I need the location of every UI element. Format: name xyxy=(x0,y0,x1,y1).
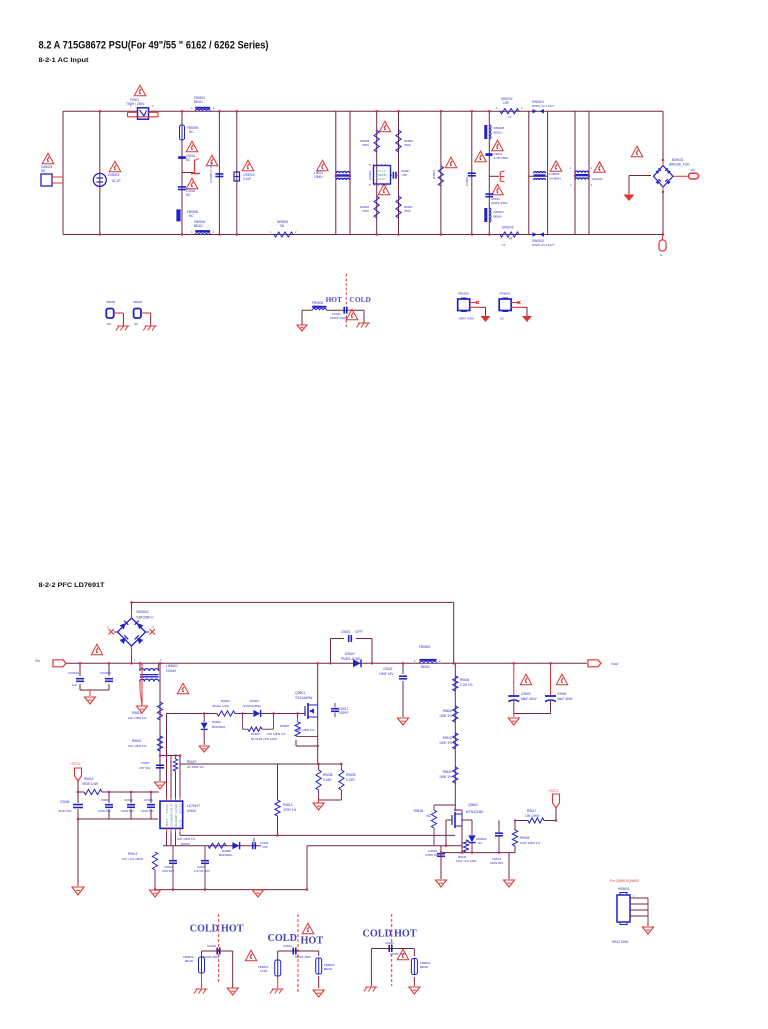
spark gap xyxy=(182,159,200,175)
svg-text:L9(2)60: L9(2)60 xyxy=(592,177,603,181)
svg-text:U9601: U9601 xyxy=(187,809,197,813)
capacitor C9007 xyxy=(393,169,410,179)
svg-text:CB901: CB901 xyxy=(106,300,116,304)
svg-text:C9602: C9602 xyxy=(383,667,393,671)
svg-text:+VCC2: +VCC2 xyxy=(70,762,81,766)
svg-text:0.15R: 0.15R xyxy=(323,778,332,782)
resistor R9612 xyxy=(122,852,158,890)
svg-text:COLD: COLD xyxy=(190,924,219,935)
bead FB9006 mid xyxy=(313,307,327,310)
svg-text:Vin: Vin xyxy=(35,659,40,663)
svg-text:R9613: R9613 xyxy=(283,803,293,807)
svg-text:1uF: 1uF xyxy=(72,683,77,687)
svg-text:121R: 121R xyxy=(260,969,268,973)
ground 142 xyxy=(137,706,148,713)
svg-text:NC: NC xyxy=(186,158,191,162)
resistor SR9002 xyxy=(496,97,523,119)
capacitor C9612 xyxy=(162,846,177,890)
warning triangle g2 xyxy=(302,923,314,934)
connector VCC2 left xyxy=(70,762,82,792)
svg-text:K8F2080-C: K8F2080-C xyxy=(137,616,155,620)
svg-text:Vout: Vout xyxy=(611,662,618,666)
svg-text:10MH: 10MH xyxy=(314,175,323,179)
diode D9602 xyxy=(341,652,361,667)
ground heatsink xyxy=(643,927,654,934)
svg-text:5D: 5D xyxy=(280,224,285,228)
resistor R9608 xyxy=(280,714,318,737)
resistor R9601 xyxy=(128,736,163,751)
svg-text:22UF 50V: 22UF 50V xyxy=(58,809,72,813)
wire vertical xyxy=(547,111,549,234)
svg-text:INV VCC: INV VCC xyxy=(165,802,169,826)
label COLD g3 xyxy=(363,929,392,940)
svg-text:NC: NC xyxy=(189,130,194,134)
svg-text:100K 1/8W 1%: 100K 1/8W 1% xyxy=(520,841,540,845)
label LN9002 xyxy=(549,172,561,181)
hotcold divider g1 xyxy=(218,914,220,983)
svg-text:10K 1/8W 1%: 10K 1/8W 1% xyxy=(267,732,286,736)
svg-text:+VCC2: +VCC2 xyxy=(548,789,559,793)
svg-text:0.1uF: 0.1uF xyxy=(243,177,251,181)
svg-text:HOT: HOT xyxy=(394,929,417,940)
resistor R9636 xyxy=(512,830,540,846)
svg-text:FR9001: FR9001 xyxy=(500,292,511,296)
svg-text:100N 50V: 100N 50V xyxy=(98,809,111,813)
ac source xyxy=(93,168,106,192)
ground c9615 xyxy=(436,880,447,887)
svg-text:LD7691T: LD7691T xyxy=(187,804,200,808)
warning triangle above fuse xyxy=(134,85,146,96)
svg-text:BRIDGE_FUN: BRIDGE_FUN xyxy=(669,163,690,167)
svg-text:1NF: 1NF xyxy=(262,845,268,849)
label HOT g3 xyxy=(394,929,417,940)
svg-text:FB9008: FB9008 xyxy=(494,126,505,130)
capacitor C9616 xyxy=(141,798,155,813)
resistor R9620 xyxy=(439,767,458,783)
ground ic rail xyxy=(253,890,264,897)
warning triangle C9014 xyxy=(492,184,504,195)
svg-text:C9005: C9005 xyxy=(465,177,469,186)
wire c9007 xyxy=(391,174,400,176)
wire vertical xyxy=(528,111,530,234)
warning triangle T9001 right xyxy=(592,162,605,181)
wire cx caps xyxy=(80,663,109,696)
svg-text:33ohm 1/4W: 33ohm 1/4W xyxy=(212,704,229,708)
svg-text:CX9619: CX9619 xyxy=(68,671,79,675)
capacitor C9607 xyxy=(139,761,164,770)
svg-text:C9618: C9618 xyxy=(207,944,216,948)
svg-text:C9604: C9604 xyxy=(557,692,567,696)
connector FR9001 xyxy=(499,292,527,317)
resistor R9602 xyxy=(212,699,235,716)
capacitor C9016 xyxy=(330,307,347,320)
warning triangle R9006 xyxy=(378,184,390,195)
subtitle 8-2-2 PFC LD7691T xyxy=(39,582,106,589)
svg-text:C9621: C9621 xyxy=(385,941,394,945)
wire g2 xyxy=(278,951,319,988)
ground hatch g2 xyxy=(270,989,284,994)
svg-text:10 0 1 0: 10 0 1 0 xyxy=(376,169,386,173)
svg-text:COLD: COLD xyxy=(268,933,297,944)
resistor R9604 xyxy=(453,676,473,691)
svg-text:N: N xyxy=(660,253,662,257)
svg-text:HOT: HOT xyxy=(221,924,244,935)
wire vertical xyxy=(398,111,400,234)
svg-text:BEAD: BEAD xyxy=(421,665,430,669)
svg-text:0.47UF 50V: 0.47UF 50V xyxy=(194,869,210,873)
resistor R9603 xyxy=(243,714,286,742)
svg-text:+91LE01060FL: +91LE01060FL xyxy=(242,704,262,708)
svg-text:B31060FL: B31060FL xyxy=(212,725,226,729)
resistor R9619 xyxy=(82,777,102,795)
resistor R9617 xyxy=(525,809,544,823)
bead FB9001 xyxy=(191,96,215,111)
svg-text:10 0 10: 10 0 10 xyxy=(376,177,385,181)
svg-text:FB9603: FB9603 xyxy=(419,645,430,649)
wire c9601 loop xyxy=(331,639,373,664)
svg-text:R9638: R9638 xyxy=(323,773,333,777)
svg-text:R9616: R9616 xyxy=(181,842,190,846)
capacitor C9613 xyxy=(194,846,210,890)
wire r9613 col xyxy=(277,764,279,835)
svg-text:4R: 4R xyxy=(509,237,512,241)
inductor FB9006 xyxy=(176,209,198,221)
svg-text:NS: NS xyxy=(41,169,45,173)
diode ZD9602 xyxy=(468,826,487,853)
svg-text:Q9601: Q9601 xyxy=(295,691,305,695)
svg-text:8-2-1 AC Input: 8-2-1 AC Input xyxy=(39,57,90,64)
wire r9636 col xyxy=(515,821,528,853)
ground r9612 xyxy=(150,890,161,897)
label AC-IP xyxy=(108,173,121,183)
capacitor C9602 xyxy=(379,667,407,679)
svg-text:R9615: R9615 xyxy=(132,711,142,715)
svg-text:BEAD: BEAD xyxy=(494,215,503,219)
wire r9638 bottom xyxy=(319,764,342,800)
ground hotcold right xyxy=(357,323,371,328)
wire bridge left to gnd xyxy=(629,176,651,194)
resistor FB9005 xyxy=(180,125,199,140)
svg-text:SR9003: SR9003 xyxy=(502,226,514,230)
capacitor C9014 xyxy=(485,194,507,205)
svg-text:10K1 +1% 1/8W: 10K1 +1% 1/8W xyxy=(456,859,477,863)
svg-text:47P: 47P xyxy=(402,173,407,177)
wire source rail xyxy=(441,820,515,879)
resistor R9610 xyxy=(439,733,458,749)
wire q9602 xyxy=(446,810,462,853)
svg-text:COLD: COLD xyxy=(350,295,371,304)
ground cx xyxy=(85,697,96,704)
svg-text:TK31A60W: TK31A60W xyxy=(295,696,313,700)
resistor R9004 xyxy=(432,166,444,186)
svg-text:HS9601: HS9601 xyxy=(618,887,630,891)
label HOT g1 xyxy=(221,924,244,935)
svg-text:NC: NC xyxy=(426,814,431,818)
ground col160 xyxy=(155,782,166,789)
capacitor C9601 xyxy=(341,630,363,642)
svg-text:B31060FL: B31060FL xyxy=(219,853,233,857)
fuse F9001 xyxy=(128,104,159,119)
svg-text:R9618: R9618 xyxy=(414,809,424,813)
svg-text:2.7M 1%: 2.7M 1% xyxy=(460,683,473,687)
wire top rail xyxy=(63,110,663,112)
svg-text:750K: 750K xyxy=(362,209,369,213)
svg-text:RAMP GND: RAMP GND xyxy=(174,802,178,826)
ground at bridge xyxy=(624,193,635,201)
connector CB9001 xyxy=(106,300,123,326)
relay contact bottom xyxy=(533,232,545,236)
ground CB9001 xyxy=(116,326,129,331)
resistor R9606 xyxy=(439,706,458,722)
wire vertical xyxy=(349,111,351,234)
label HOT xyxy=(326,295,342,304)
ground open g2 xyxy=(313,990,324,997)
wire vertical xyxy=(488,111,490,234)
ground open g1 xyxy=(227,988,238,995)
svg-text:NC: NC xyxy=(189,214,194,218)
relay contact top xyxy=(533,109,545,113)
wire vertical xyxy=(588,111,590,234)
svg-text:10K OHM: 10K OHM xyxy=(525,814,539,818)
wire ic bottom pins xyxy=(167,833,181,846)
inductor L9001 xyxy=(336,172,350,180)
svg-text:R9617: R9617 xyxy=(527,809,537,813)
svg-text:CN9002: CN9002 xyxy=(108,173,120,177)
svg-text:750K: 750K xyxy=(404,143,411,147)
svg-text:100PF: 100PF xyxy=(339,711,348,715)
svg-text:DISPL-IN 4.5A/T: DISPL-IN 4.5A/T xyxy=(532,243,555,247)
resistor R9009 xyxy=(396,130,413,152)
diode ZD9603 branch xyxy=(201,714,226,746)
label BD9601 xyxy=(137,610,155,620)
svg-text:BEAD: BEAD xyxy=(194,100,203,104)
svg-text:47P 50V: 47P 50V xyxy=(139,766,150,770)
svg-text:470R 1%: 470R 1% xyxy=(283,808,296,812)
resistor R9007 xyxy=(396,196,413,218)
label COLD xyxy=(350,295,371,304)
choke LF9002 xyxy=(368,164,391,186)
svg-text:COMP/OLP: COMP/OLP xyxy=(170,804,174,827)
wire rail 845 right xyxy=(307,845,441,847)
wire c9603 xyxy=(514,663,551,717)
inductor LN9002 xyxy=(529,172,548,180)
svg-text:R9606: R9606 xyxy=(443,709,453,713)
wire c9602 xyxy=(402,663,404,717)
svg-text:R9612: R9612 xyxy=(128,852,138,856)
label U9601 xyxy=(187,804,200,813)
connector CB9002 xyxy=(133,300,151,326)
wire vertical xyxy=(574,111,576,234)
svg-text:56 OHM +5% 1/4W: 56 OHM +5% 1/4W xyxy=(251,737,277,741)
ground hatch g1 xyxy=(194,989,208,994)
svg-text:NS: NS xyxy=(107,322,111,326)
label COLD g1 xyxy=(190,924,219,935)
wire hotcold xyxy=(302,310,364,325)
bead FB9008 xyxy=(484,125,504,139)
svg-text:FB9007: FB9007 xyxy=(494,210,505,214)
svg-text:T5AH / 250V: T5AH / 250V xyxy=(126,102,145,106)
svg-text:68uF 450V: 68uF 450V xyxy=(557,697,573,701)
wire vertical xyxy=(181,111,183,234)
wire vertical xyxy=(471,111,473,234)
svg-text:C9619: C9619 xyxy=(124,798,133,802)
label HEAT SINK xyxy=(612,940,629,944)
ground open g3 xyxy=(409,987,420,994)
warning triangle g3 xyxy=(397,949,409,960)
svg-text:C9616: C9616 xyxy=(144,798,153,802)
ground c9603 xyxy=(508,718,519,725)
capacitor C9013 xyxy=(486,153,493,156)
resistor R9006 xyxy=(360,196,379,218)
svg-text:HOT: HOT xyxy=(326,295,342,304)
transistor Q9601 xyxy=(295,691,318,722)
capacitor C9603 xyxy=(508,692,537,702)
svg-text:HEAT SINK: HEAT SINK xyxy=(459,317,475,321)
label COLD g2 xyxy=(268,933,297,944)
capacitor CX9619 xyxy=(68,671,84,687)
wire vertical xyxy=(376,111,378,234)
svg-text:BD9601: BD9601 xyxy=(137,610,149,614)
resistor SR9003 xyxy=(500,226,519,248)
resistor R9638 xyxy=(316,770,333,790)
wire vertical xyxy=(440,111,442,234)
capacitor C9615 xyxy=(425,849,445,857)
svg-text:750K: 750K xyxy=(362,143,369,147)
warning triangle C9604 xyxy=(556,674,568,685)
svg-text:472P 250V: 472P 250V xyxy=(494,156,509,160)
bead FB9603 xyxy=(414,645,441,669)
bead FB9604 g3 xyxy=(411,959,430,975)
svg-text:BEAD: BEAD xyxy=(185,959,194,963)
capacitor C9611 xyxy=(253,838,269,849)
resistor R9639 xyxy=(339,770,356,790)
capacitor C9005 xyxy=(465,173,476,186)
label HS9601 xyxy=(618,887,630,891)
warning triangle C9016 xyxy=(346,309,358,320)
svg-text:D9603: D9603 xyxy=(212,720,221,724)
hotcold divider g2 xyxy=(297,914,299,992)
svg-text:10K 1/8W 1%: 10K 1/8W 1% xyxy=(177,837,196,841)
hot cold divider xyxy=(345,274,347,327)
svg-text:CB902: CB902 xyxy=(133,300,143,304)
transformer T9001 xyxy=(570,166,593,187)
svg-text:COLD: COLD xyxy=(363,929,392,940)
warning triangle C9002 xyxy=(186,178,198,197)
svg-text:CX9001 0.47uF: CX9001 0.47uF xyxy=(209,162,213,183)
svg-text:DISPL-IN 4.5A/T: DISPL-IN 4.5A/T xyxy=(532,104,555,108)
svg-text:12(4)MH: 12(4)MH xyxy=(549,177,561,181)
resistor R9613 xyxy=(275,800,296,816)
label C9013 xyxy=(494,152,509,160)
svg-text:100N 50V: 100N 50V xyxy=(121,809,134,813)
svg-text:LN9601: LN9601 xyxy=(166,664,178,668)
diode D9604 xyxy=(242,699,265,717)
connector Vin top xyxy=(673,169,699,179)
heatsink HS9601 xyxy=(617,893,648,927)
wire col160 xyxy=(159,663,161,781)
svg-text:8-2-2 PFC LD7691T: 8-2-2 PFC LD7691T xyxy=(39,582,106,589)
connector Vout xyxy=(588,660,618,667)
wire vertical xyxy=(62,111,64,234)
resistor R9616 xyxy=(177,837,226,848)
bridge BD9001 xyxy=(654,153,691,199)
svg-text:R9639: R9639 xyxy=(346,773,356,777)
svg-text:C9603: C9603 xyxy=(521,692,531,696)
svg-text:NS: NS xyxy=(134,322,138,326)
label P9001 xyxy=(41,165,53,173)
wire gate row xyxy=(167,714,306,756)
wire gnd142 xyxy=(141,663,143,706)
svg-text:1S: 1S xyxy=(502,243,505,247)
svg-text:AC-IP: AC-IP xyxy=(112,179,121,183)
wire vcc rail xyxy=(78,792,159,886)
capacitor C9606 xyxy=(58,800,83,813)
svg-text:R9636: R9636 xyxy=(520,836,530,840)
resistor R9618 xyxy=(414,805,456,846)
svg-text:R9608: R9608 xyxy=(280,724,289,728)
svg-text:R9602: R9602 xyxy=(221,699,230,703)
svg-text:D9604: D9604 xyxy=(250,699,259,703)
svg-text:PMEG-1100E: PMEG-1100E xyxy=(341,657,360,661)
warning triangle L9001 xyxy=(314,160,328,179)
label CX9001 xyxy=(209,162,213,183)
spark gap 2 xyxy=(489,171,504,182)
svg-text:R9607: R9607 xyxy=(187,760,197,764)
svg-text:NC: NC xyxy=(186,193,191,197)
svg-text:0R39 1/4W: 0R39 1/4W xyxy=(82,782,98,786)
wire q9601 source xyxy=(296,722,318,746)
wire vertical xyxy=(236,111,238,234)
connector P9001 xyxy=(41,174,63,186)
svg-text:47M 90V: 47M 90V xyxy=(162,869,174,873)
connector FR9002 xyxy=(458,292,486,317)
wire right edge upper xyxy=(662,111,664,160)
svg-text:Vin: Vin xyxy=(691,169,696,173)
svg-text:For Q9601/Q9602: For Q9601/Q9602 xyxy=(610,879,639,883)
svg-text:2K 1/8W 1%: 2K 1/8W 1% xyxy=(187,765,204,769)
svg-text:750K: 750K xyxy=(404,209,411,213)
capacitor C9609 xyxy=(98,798,113,813)
wire r9604 col xyxy=(454,663,456,810)
bead FB9007 xyxy=(484,208,504,222)
svg-text:CS ZCD: CS ZCD xyxy=(179,802,183,826)
label for Q9601/Q9602 xyxy=(610,879,639,883)
capacitor CX9002 xyxy=(234,172,240,181)
ground ZD9603 xyxy=(199,746,209,752)
svg-text:100K 1%: 100K 1% xyxy=(439,714,452,718)
wire q9601 drain xyxy=(317,663,319,701)
svg-text:10K 1/8W 1%: 10K 1/8W 1% xyxy=(128,716,147,720)
wire g3 xyxy=(371,949,414,987)
svg-text:R9619: R9619 xyxy=(84,777,94,781)
ground r9638 xyxy=(313,800,324,810)
svg-text:68uF 450V: 68uF 450V xyxy=(521,697,537,701)
svg-text:470PF 50V: 470PF 50V xyxy=(425,853,439,857)
svg-text:CX9604: CX9604 xyxy=(100,671,111,675)
capacitor C9621 g3 xyxy=(385,941,406,956)
svg-text:8.2 A 715G8672 PSU(For 49"/55: 8.2 A 715G8672 PSU(For 49"/55 " 6162 / 6… xyxy=(39,40,269,52)
ic U9601 LD7691T xyxy=(160,798,183,833)
svg-text:-: - xyxy=(657,195,658,199)
wire rail 835 xyxy=(180,834,455,836)
warning triangle C9013 right xyxy=(492,140,504,151)
wire vertical xyxy=(335,111,337,234)
svg-text:R9601: R9601 xyxy=(132,739,142,743)
svg-text:C9620: C9620 xyxy=(283,944,292,948)
capacitor CX9001 xyxy=(215,174,223,177)
ground CB9002 xyxy=(143,326,157,331)
ground c9614 xyxy=(504,880,515,887)
